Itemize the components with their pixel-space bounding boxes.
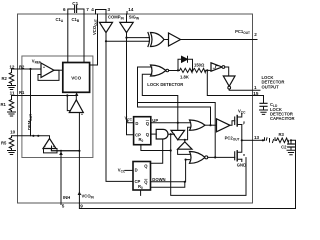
wire triangle b output to NOR2 [178,140,190,155]
wire A2 feedback loop [44,149,58,153]
transistor Q1 PMOS [235,114,242,141]
wire R0 link FF1-FF2 [141,145,171,151]
wire pin11 R1 [18,95,77,97]
node R1 branch [66,94,68,96]
node AND out [170,133,172,135]
wire VCO_OUT from pin4 down to VCO [90,14,98,65]
svg-text:+: + [43,66,45,70]
svg-text:13: 13 [254,135,260,140]
svg-text:R1: R1 [19,90,25,95]
diode symbol [182,56,188,62]
wire XOR lower input [106,40,150,42]
capacitor C1 [68,6,84,15]
resistor R1 external [9,96,17,112]
wire INH from pin5 up with arrow [60,155,62,204]
wire VCO_IN vertical from pin9 [78,113,80,204]
svg-text:1.8K: 1.8K [180,75,189,80]
lock detector NAND gate [151,65,167,76]
wire OR1 to buffer [205,124,217,126]
wire pin4 to pin3 external jumper [96,10,107,15]
svg-text:12: 12 [9,64,15,69]
wire Vcc to FF1 D [128,120,134,123]
svg-text:15: 15 [253,91,259,96]
AND gate PC2 reset [156,129,168,139]
buffer PC1 output driver [169,33,181,46]
svg-text:LOCK DETECTOR: LOCK DETECTOR [147,82,183,87]
buffer PC2 drive [217,119,231,132]
wire XOR to buffer [164,39,169,41]
VCO block [63,63,90,93]
wire pin12 R2 into A1 [18,68,42,70]
svg-text:D: D [135,121,138,126]
svg-text:4: 4 [91,7,94,12]
wire pin6 C1A down to VCO [67,14,69,63]
svg-text:1: 1 [254,85,257,90]
wire pin14 SIG_IN down to amp A2 [126,14,128,22]
svg-text:5: 5 [62,204,65,209]
schmitt mark inv1 [213,66,217,68]
node triangle top [177,129,179,131]
Vcc stub for PMOS [241,113,243,116]
wire A2 input from VCO_IN [51,149,79,151]
lock gate output bubble [166,69,169,72]
node DEM_OUT a [32,135,34,137]
node NOR2 reset join [245,157,247,159]
wire link to R3 [275,139,277,141]
wire to inverter [206,69,211,71]
svg-text:R1: R1 [1,102,7,107]
node down input [185,159,187,161]
arrowhead VCO_IN [78,191,82,195]
node diode branch left [177,69,179,71]
wire lock NOR upper input loop from NOR2 output [138,67,216,157]
wire loop filter to pin9 [79,140,295,208]
wire inv1 to inv2 [225,67,229,76]
node ext pin13 [262,139,264,141]
node SIG/XOR junction [125,37,127,39]
inverter bubble 1 [222,66,225,69]
wire pin14 stub [126,12,128,15]
arrowhead INH [59,151,63,155]
node loop filter [290,139,292,141]
svg-text:n: n [243,153,245,157]
wire COMP amp output down [105,33,107,42]
node CLD tap [206,69,208,71]
wire buffer to P gate [230,121,235,126]
svg-text:R5: R5 [1,141,7,146]
svg-text:OUTPUT: OUTPUT [262,84,280,89]
diode bypass loop [178,59,193,70]
arrowhead into VCO [75,92,79,96]
svg-text:2: 2 [254,32,257,37]
node OR1 out [209,124,211,126]
ground for R2 [8,86,16,90]
op-amp A1 reference follower [41,63,54,78]
wire OR1 output feedback loop [138,103,211,126]
resistor 150 ohm [193,68,206,72]
node COMP/XOR junction [105,40,107,42]
wire OR1 lower input [178,123,190,140]
wire UP from FF1 Qbar [151,122,191,124]
ground for C_LD [260,110,268,114]
resistor R2 external [9,69,17,85]
svg-text:6: 6 [63,7,66,12]
inner box VCO/demod section [22,56,93,158]
jumper link symbol [265,138,276,143]
wire pin7 C1B down to VCO [83,14,85,63]
node NOR2 lock tap [214,156,216,158]
wire FF2 Q up to AND [150,139,163,163]
wire lock output to pin1 [229,89,260,90]
wire pin3 COMP_IN down to amp A1 [105,14,107,22]
wire A5 output up [75,96,77,100]
triangle down PC2 a [171,130,185,139]
wire pin10 DEM_OUT [18,136,50,139]
wire SIG amp output down [126,33,128,38]
node FF1 reset join [170,149,172,151]
IC outer box [18,14,253,203]
wire lock gate output [169,70,180,72]
node DEM_OUT b [37,135,39,137]
wire A1 feedback loop [38,70,59,80]
svg-text:3: 3 [108,7,111,12]
svg-text:9: 9 [80,204,83,209]
svg-text:11: 11 [10,90,15,95]
node UP lock tap [177,122,179,124]
wire PC2out to pin13 [242,139,253,141]
svg-text:-: - [45,145,46,149]
ground for R5 [8,151,16,155]
op-amp A5 VCO input follower [69,100,83,113]
OR gate 1 UP drive [190,120,206,130]
resistor 1.8K [180,68,193,72]
node R2 branch [29,68,31,70]
svg-text:-: - [43,74,44,78]
svg-text:DOWN: DOWN [152,177,165,182]
inverter bubble 2 [228,86,231,89]
wire INH pin5 stub [60,203,62,205]
svg-text:UP: UP [152,118,158,123]
wire COMP line down to FF2 CP [106,41,133,181]
flip-flop FF2 DOWN [133,162,151,191]
wire SIG line down to FF1 CP [127,38,134,135]
inverter lock 1 [211,63,222,71]
node PC2 drains [241,139,243,141]
wire XOR upper input [127,37,150,39]
node INH join [60,150,62,152]
node VCO_IN demod branch [78,150,80,152]
wire FF2 R0 hook [151,182,185,188]
triangle up PC2 b [178,142,192,149]
svg-text:10: 10 [10,130,16,135]
NOR gate 2 DOWN drive [190,151,208,163]
op-amp A4 SIG_IN input amplifier [120,22,133,32]
XOR gate PC1 phase comparator [148,32,164,46]
wire DOWN from FF2 Qbar to NOR2 [151,160,190,182]
svg-text:+: + [81,113,83,117]
ground for C2 [287,150,295,154]
svg-text:7: 7 [86,7,89,12]
svg-text:-: - [70,111,71,115]
svg-text:150Ω: 150Ω [194,63,205,68]
transistor Q2 NMOS [235,140,242,161]
node after 1.8K [191,69,193,71]
svg-text:D: D [135,167,138,172]
wire Vcc to FF2 D [125,169,133,171]
svg-text:C2: C2 [281,144,287,149]
inverter lock 2 down [223,76,235,86]
wire demod input from VCO_IN [52,146,80,151]
resistor R3 [277,138,289,143]
svg-text:GND: GND [237,163,246,168]
resistor R5 external [9,136,17,150]
op-amp A2 demodulator follower [43,139,56,149]
wire AND output down loop [141,134,246,195]
svg-text:R2: R2 [19,64,25,69]
capacitor C2 [288,140,295,149]
wire R2 node down to demod A2 input [30,69,32,136]
wire pin13 external to link [253,139,265,141]
svg-text:C1: C1 [72,1,78,6]
capacitor C_LD [260,96,267,110]
ground for R1 [8,112,16,116]
wire lock NOR lower input loop from UP [142,74,178,122]
wire A1 to VCO [54,69,63,71]
node tri b top [184,139,186,141]
wire PC1out to pin 2 [181,39,258,41]
wire arrow into VCO bottom [76,94,78,96]
wire FF1 Q to AND [151,133,156,135]
svg-text:14: 14 [128,7,134,12]
op-amp A3 COMP_IN input amplifier [100,22,113,32]
svg-text:+: + [53,145,55,149]
svg-text:R3: R3 [279,132,285,137]
wire CLD node to pin15 [207,70,263,95]
svg-text:CAPACITOR: CAPACITOR [270,116,295,121]
svg-text:R2: R2 [2,76,8,81]
svg-text:INH: INH [63,195,70,200]
svg-text:VCO: VCO [71,75,81,80]
node R0 hook join [184,181,186,183]
flip-flop FF1 UP [134,117,151,145]
wire R1 node to A3 minus [67,96,70,111]
wire NOR2 to N gate [208,156,235,158]
